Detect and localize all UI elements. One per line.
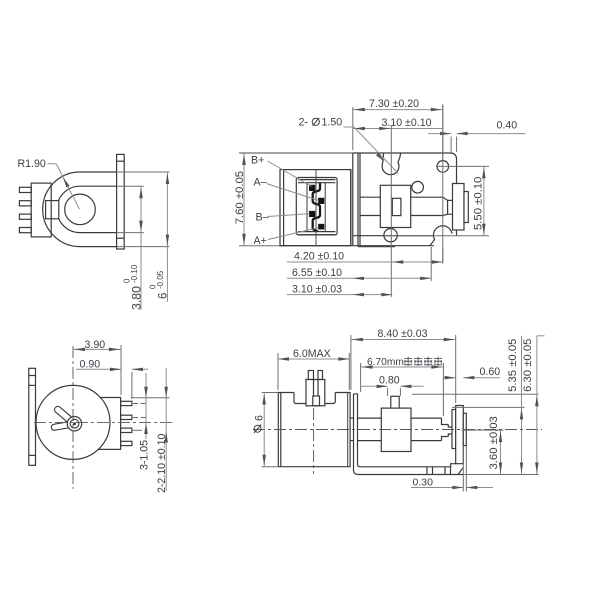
bearing plate [453,184,465,231]
housing right rail [324,183,326,232]
terminal pad A- [318,198,324,204]
pin 1 centerline stub [133,402,148,404]
svg-text:2-: 2- [299,116,309,128]
hole centerline horizontal [436,165,489,167]
bracket bottom leg [354,464,464,475]
lead screw left segment [360,196,380,198]
plate tick 2 [29,384,36,386]
svg-text:A+: A+ [254,235,267,247]
plate tab tick bottom [117,237,125,239]
connector block rear [98,398,120,450]
dimension 0.40 [450,137,452,154]
lead screw right segment [411,196,443,198]
svg-text:5.50 ±0.10: 5.50 ±0.10 [472,177,484,230]
connector block [31,183,51,237]
svg-text:3.10 ±0.03: 3.10 ±0.03 [292,283,342,295]
pin 4 [121,441,132,445]
ext line bracket top [412,393,539,395]
svg-text:4.20 ±0.10: 4.20 ±0.10 [294,250,344,262]
pin 2 [121,415,132,419]
dimension 3.90 [120,345,122,395]
svg-text:-0.05: -0.05 [156,270,165,289]
dimension 7.60 +-0.05 [239,152,353,154]
cap inner seam [283,170,285,246]
svg-text:-0.10: -0.10 [130,264,139,283]
svg-text:3.90: 3.90 [85,339,106,351]
dimension 0.80 [387,388,389,396]
dimension 3.10 +-0.03 [287,294,392,296]
bearing cap [464,192,468,223]
bearing plate side [456,406,464,464]
ext line centerline right [462,429,504,431]
motor circle [36,385,110,459]
pin 2 up [318,371,323,380]
connector centerline [315,170,317,246]
svg-text:0.40: 0.40 [497,120,518,132]
dimension 6.55 +-0.10 [430,247,432,281]
top slot keyhole [382,153,401,175]
bracket plate side [354,394,358,470]
dimension 3.10 +-0.10 [353,128,443,130]
dimension 0.90 [131,372,133,399]
plate tick 3 [29,454,36,456]
svg-text:3.60 ±0.03: 3.60 ±0.03 [488,416,500,469]
shaft hole circle [65,194,96,225]
svg-text:0.80: 0.80 [379,375,400,387]
svg-text:B–: B– [256,211,269,223]
motor body outer contour [43,172,117,247]
dimension 7.30 +-0.20 [352,107,354,150]
leader R1.90 [48,163,57,165]
view B: motor top view (top-right) [280,153,353,246]
dimension 6.70mm thread length [360,363,362,392]
view C: motor rear view (bottom-left) [29,368,148,465]
svg-text:3-1.05: 3-1.05 [138,440,150,470]
ext line bearing top [452,406,525,408]
svg-text:3.10 ±0.10: 3.10 ±0.10 [382,117,432,129]
svg-text:6.0MAX: 6.0MAX [293,348,331,360]
svg-text:0.60: 0.60 [480,366,501,378]
svg-text:0.30: 0.30 [413,477,434,489]
pin 2 [19,201,31,206]
dimension 4.20 +-0.10 [442,247,444,264]
terminal meander strip [313,183,320,232]
svg-text:7.30 ±0.20: 7.30 ±0.20 [369,98,419,110]
dimension 6.30 +-0.05 [536,336,538,475]
pin 3 [19,214,31,219]
rear plate edge-on [29,368,36,465]
pin 1 [121,401,132,405]
shaft clip feature [53,405,78,427]
terminal pad B+ [309,185,315,191]
pin 1 [19,187,31,192]
bracket lower lip [280,245,434,247]
can face seam [347,393,349,467]
plate tick 1 [29,375,36,377]
svg-text:1.50: 1.50 [322,116,343,128]
horizontal centerline [34,421,172,423]
bearing cap side [463,413,466,445]
connector block side [306,380,325,406]
boss hole [412,181,424,193]
slider block side [381,408,411,451]
leg corner chamfer [458,468,463,475]
svg-text:7.60 ±0.05: 7.60 ±0.05 [234,171,246,224]
svg-text:A–: A– [254,176,267,188]
dimension 0.60 [443,377,455,379]
keyway notch rectangle [46,201,59,219]
bracket inner seam double [357,153,359,247]
bottom centerline horizontal [384,235,489,237]
svg-text:6.70mm: 6.70mm [367,357,404,368]
horizontal centerline [253,429,542,431]
view D: motor side view (bottom-right) [278,371,466,475]
motor can face double line [350,170,352,246]
top channel [294,393,335,404]
svg-text:B+: B+ [251,155,264,167]
slider window [392,198,401,215]
svg-text:6: 6 [253,415,265,421]
dimension 5.50 +-0.10 [483,166,485,235]
bracket plate face [280,153,468,247]
slider block [380,185,410,227]
view A: motor front view (top-left) [19,154,124,249]
svg-text:6.30 ±0.05: 6.30 ±0.05 [522,339,534,392]
vertical centerline [313,408,315,474]
terminal pad B- [309,211,315,217]
pin 3 [121,428,132,432]
boss on slider [391,396,399,408]
pin 4 [19,228,31,233]
rear cap rect [280,170,351,246]
dimension 6 0/-0.05 [117,171,170,173]
bottom notch circle [384,229,397,242]
vertical centerline [72,346,74,489]
body outline [278,393,350,467]
dimension phi6 [262,392,279,394]
svg-text:0.90: 0.90 [80,358,101,370]
leg tick pair 2 [444,467,446,475]
screw tip shoulder [442,418,453,441]
connector housing [296,178,337,235]
dimension 3.60 +-0.03 [500,430,502,474]
svg-text:6: 6 [158,293,170,299]
dimension 8.40 +-0.03 [350,335,352,390]
pin 2 centerline stub [133,416,148,418]
dimension 5.35 +-0.05 [521,336,523,475]
lead screw [358,417,382,419]
cap seam [280,393,282,467]
dimension 2-2.10 +-0.10 [165,368,167,491]
housing left rail [306,183,308,232]
leg tick pair 1 [426,467,428,475]
ext line leg bottom [463,474,539,476]
bottom relief circle [430,226,453,246]
terminal pad A+ [318,224,324,229]
bearing washer [452,410,456,449]
svg-text:R1.90: R1.90 [18,158,46,170]
motor body inner contour R1.90 [57,186,117,232]
dimension 6.0MAX [277,353,279,390]
housing top bar [298,179,335,181]
screw tip taper [443,197,452,215]
mounting plate edge-on [117,154,125,249]
svg-text:8.40 ±0.03: 8.40 ±0.03 [378,328,428,340]
mounting hole top [437,161,449,173]
dimension 3.80 0/-0.10 [117,185,144,187]
hole centerline vertical [442,105,444,264]
plate tab tick top [117,160,125,162]
dimension 3-1.05 [131,397,170,399]
pin 1 up [308,371,313,380]
dimension 0.30 [462,446,464,492]
svg-text:3.80: 3.80 [130,286,144,310]
housing bottom bar [298,231,335,233]
notch centerline vertical [390,125,392,297]
svg-text:6.55 ±0.10: 6.55 ±0.10 [292,267,342,279]
svg-text:2-2.10 ±0.10: 2-2.10 ±0.10 [156,433,168,493]
svg-text:5.35 ±0.05: 5.35 ±0.05 [507,339,519,392]
